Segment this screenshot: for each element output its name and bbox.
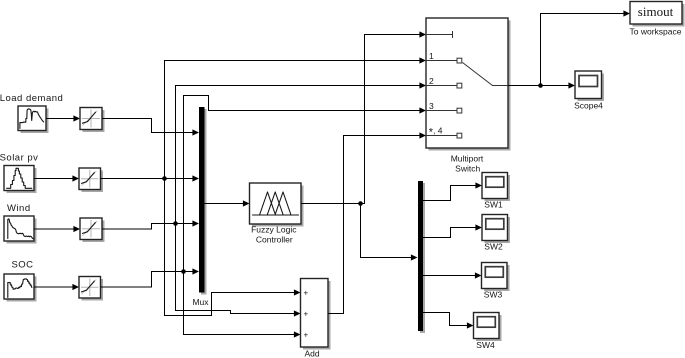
wire Demux output1 to SW1 <box>423 182 482 200</box>
Fuzzy Logic Controller label <box>251 225 297 245</box>
Scope SW2 block <box>482 215 510 244</box>
svg-text:+: + <box>304 310 309 319</box>
wire Add output to Multiport Switch input 4 <box>328 132 426 313</box>
saturation S3 <box>80 218 105 242</box>
wire branch up to simout <box>541 10 631 85</box>
svg-text:+: + <box>304 331 309 340</box>
wire FLC output to Multiport Switch control input <box>301 31 426 203</box>
svg-text:Controller: Controller <box>256 235 293 245</box>
saturation S4 <box>79 277 103 301</box>
svg-text:Fuzzy Logic: Fuzzy Logic <box>251 225 297 235</box>
Scope SW4 block <box>474 313 502 342</box>
svg-text:1: 1 <box>429 51 434 61</box>
svg-text:Switch: Switch <box>455 164 480 174</box>
wire SOC branch down to Add input 3 <box>184 272 301 338</box>
wire wind branch up to Multiport Switch input 2 <box>176 82 427 223</box>
svg-text:Solar pv: Solar pv <box>0 153 38 164</box>
junction node solar <box>162 176 167 181</box>
junction node FLC output <box>358 201 363 206</box>
wire Wind to saturation3 <box>34 226 80 232</box>
wire saturation2 to Mux input2 with junction <box>101 175 200 181</box>
svg-text:SW1: SW1 <box>484 200 503 210</box>
svg-text:Multiport: Multiport <box>451 154 484 164</box>
svg-text:Load demand: Load demand <box>0 93 63 104</box>
source block Solar pv <box>4 166 37 194</box>
To Workspace block simout <box>630 2 685 27</box>
wire solar branch up to Multiport Switch input 1 <box>165 57 427 178</box>
source block Wind <box>4 216 37 244</box>
svg-text:+: + <box>304 289 309 298</box>
wire Mux output to Fuzzy Logic Controller <box>205 200 250 206</box>
svg-text:simout: simout <box>638 4 674 19</box>
junction node SOC <box>181 269 186 274</box>
op Fuzzy Logic Controller U1 <box>250 183 304 227</box>
source block Load demand <box>18 106 49 133</box>
svg-text:2: 2 <box>429 76 434 86</box>
Demux bar <box>418 181 425 333</box>
wire saturation1 to Mux input1 <box>102 119 199 136</box>
Scope SW3 block <box>482 263 510 292</box>
svg-text:To workspace: To workspace <box>630 27 682 37</box>
saturation S2 <box>79 168 103 192</box>
svg-text:SOC: SOC <box>11 260 33 271</box>
svg-text:SW4: SW4 <box>476 340 495 350</box>
Add block <box>301 279 331 350</box>
source block SOC <box>4 274 37 302</box>
svg-text:Scope4: Scope4 <box>574 101 603 111</box>
wire FLC branch down to Demux input <box>361 204 418 261</box>
svg-text:SW2: SW2 <box>484 242 503 252</box>
svg-text:SW3: SW3 <box>484 290 503 300</box>
wire Load demand to saturation1 <box>46 115 80 121</box>
saturation S1 <box>80 108 105 133</box>
svg-text:3: 3 <box>429 101 434 111</box>
Multiport Switch block <box>426 18 511 151</box>
junction node wind <box>173 221 178 226</box>
Scope4 block <box>575 71 604 101</box>
wire Demux output2 to SW2 <box>423 224 482 237</box>
wire Demux output4 to SW4 <box>423 313 474 329</box>
Scope SW1 block <box>482 173 510 202</box>
svg-text:Wind: Wind <box>7 203 31 214</box>
svg-text:Add: Add <box>304 349 319 358</box>
Mux block bar <box>199 107 207 295</box>
wire SOC branch up over Mux to Multiport Switch input 3 <box>184 96 427 272</box>
wire Multiport Switch output to Scope4 <box>508 82 575 88</box>
Multiport Switch label <box>451 154 484 174</box>
wire wind branch down to Add input 2 <box>176 224 301 317</box>
wire Solar pv to saturation2 <box>34 175 79 181</box>
wire saturation3 to Mux input3 with junction <box>102 220 199 229</box>
junction node switch output <box>538 83 543 88</box>
svg-text:Mux: Mux <box>192 297 209 307</box>
wire Demux output3 to SW3 <box>423 272 482 278</box>
wire saturation4 to Mux input4 with junction <box>101 268 200 287</box>
wire SOC to saturation4 <box>34 284 79 290</box>
wire solar branch down to Add input 1 <box>165 179 301 316</box>
